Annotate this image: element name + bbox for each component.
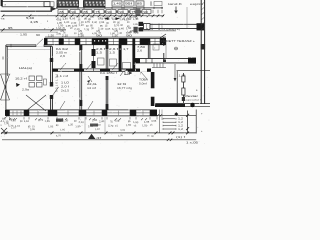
- NE corner diagonal tick: [160, 34, 166, 38]
- window mullion ticks: [52, 39, 54, 45]
- hall furniture table group: [29, 76, 35, 81]
- svg-text:4,05: 4,05: [114, 119, 120, 123]
- bottom line2 smudges: [88, 134, 96, 139]
- main top wall upper edge line: [45, 36, 166, 38]
- top-left dark corner bar: [1, 0, 3, 6]
- svg-text:tand.K: tand.K: [168, 2, 182, 6]
- svg-text:5,70: 5,70: [108, 124, 114, 128]
- door swing near bottom wall: [60, 101, 65, 109]
- bottom window mid lines: [10, 112, 25, 114]
- door gap mid-right: [146, 59, 152, 62]
- svg-text:5,0mf: 5,0mf: [139, 83, 147, 86]
- svg-text:1,95: 1,95: [20, 34, 28, 37]
- window mid lines: [47, 41, 59, 43]
- svg-text:2,40: 2,40: [56, 120, 62, 123]
- terrace small blob: [163, 60, 166, 63]
- terrace inner edge line: [143, 30, 176, 32]
- porch leader arrow: [174, 64, 176, 78]
- NE corner vertical wall: [163, 37, 165, 46]
- window row B boxes: [58, 10, 68, 14]
- terrace wall left column box: [144, 24, 151, 30]
- svg-text:3,05: 3,05: [30, 128, 36, 131]
- svg-text:1,95: 1,95: [48, 125, 54, 128]
- right outer wall double: [200, 0, 202, 104]
- hall door X mark: [26, 95, 46, 111]
- door swing marks upper rooms: [60, 63, 66, 70]
- fixture rect room4: [110, 59, 117, 66]
- svg-text:1,35: 1,35: [44, 120, 50, 123]
- svg-text:16,77 mfg: 16,77 mfg: [117, 86, 133, 90]
- SE bottom wall thick: [155, 103, 185, 107]
- svg-text:2,10: 2,10: [98, 27, 104, 30]
- terrace top wall double line: [143, 23, 200, 25]
- mid-right wall y60: [134, 58, 196, 60]
- dimension line row 1: [3, 15, 164, 17]
- svg-text:10,2 +f: 10,2 +f: [15, 77, 27, 81]
- bottom dark blob 2: [90, 124, 98, 127]
- bottom window mullions: [12, 111, 14, 116]
- svg-text:1 LO: 1 LO: [61, 81, 69, 85]
- main wall piers: [44, 38, 48, 44]
- ticks row y18: [57, 17, 59, 19]
- small fixture right of x150: [153, 44, 159, 50]
- right edge vertical line: [195, 110, 197, 134]
- svg-text:FEDETT TERASZ +: FEDETT TERASZ +: [161, 39, 196, 43]
- door knob blob: [190, 103, 194, 107]
- svg-text:TETOTER: TETOTER: [55, 74, 58, 92]
- duct blocks x93: [92, 45, 94, 71]
- svg-text:1,10: 1,10: [11, 126, 17, 129]
- svg-text:12 f4: 12 f4: [117, 82, 127, 86]
- stacked short dim lines: [163, 118, 176, 120]
- long bottom dim line 1: [1, 132, 196, 134]
- eaves arrowhead: [51, 6, 57, 11]
- svg-text:2,10: 2,10: [62, 35, 69, 38]
- svg-text:KA 185x f: KA 185x f: [100, 71, 117, 75]
- dim line left y32 faint: [0, 31, 58, 33]
- toba door swing: [141, 72, 147, 79]
- window row A dense strip 2: [84, 1, 106, 7]
- svg-text:1,10: 1,10: [63, 119, 69, 122]
- svg-text:14 mf: 14 mf: [87, 86, 96, 90]
- bottom wall band: [6, 109, 157, 111]
- svg-text:3,75: 3,75: [146, 28, 154, 31]
- bottom wall piers: [5, 110, 10, 116]
- right dim line y115: [156, 114, 196, 116]
- right wall hatch: [201, 2, 204, 5]
- terrace wall ticks: [158, 23, 160, 29]
- svg-text:95f: 95f: [125, 3, 133, 6]
- hall top wall door gap: [36, 44, 44, 46]
- hall right wall jambs: [50, 58, 53, 62]
- row A small box far right: [154, 1, 162, 5]
- hall top door swing: [37, 39, 43, 45]
- hall top wall tick: [2, 57, 4, 60]
- svg-text:2,40: 2,40: [119, 27, 125, 30]
- hall right wall door gap: [50, 87, 53, 96]
- svg-text:KA 3x2: KA 3x2: [56, 47, 69, 51]
- row B baseline: [57, 13, 151, 15]
- svg-text:4,35: 4,35: [30, 20, 39, 24]
- svg-text:4,75 (despre): 4,75 (despre): [158, 28, 180, 31]
- scan noise speckle: [1, 2, 210, 144]
- svg-text:1,95: 1,95: [70, 18, 76, 21]
- svg-text:HAL(a): HAL(a): [19, 66, 32, 70]
- svg-text:3,05: 3,05: [120, 129, 126, 132]
- svg-text:5,70: 5,70: [38, 119, 44, 122]
- thick wall x152 lower: [151, 72, 155, 106]
- svg-text:1,20: 1,20: [64, 21, 70, 24]
- svg-text:. .: . .: [16, 33, 18, 36]
- svg-text:1,10: 1,10: [24, 120, 30, 123]
- interior wall y70: [52, 68, 151, 70]
- dim line left y30: [0, 29, 66, 31]
- SE column wall: [182, 73, 184, 103]
- svg-text:1,7: 1,7: [123, 48, 129, 51]
- down arrow: [175, 7, 177, 11]
- terrace wall right end block: [197, 23, 205, 30]
- svg-text:1,50: 1,50: [48, 35, 55, 38]
- left bay X mark: [1, 74, 10, 100]
- svg-text:2,65: 2,65: [85, 20, 91, 24]
- right wall dark chunk: [201, 44, 205, 50]
- svg-text:2,0 f: 2,0 f: [61, 85, 69, 89]
- interior wall jambs: [52, 69, 58, 72]
- main top wall band lines: [44, 37, 166, 39]
- row A mid boxes: [112, 1, 122, 6]
- wall x152 door gap: [150, 88, 155, 97]
- svg-text:eujcm: eujcm: [190, 2, 204, 6]
- porch rail lines: [177, 70, 211, 72]
- eaves lower thick line: [1, 10, 53, 12]
- svg-text:4,05: 4,05: [151, 120, 157, 123]
- thin leader line right: [186, 7, 188, 28]
- svg-text:2,6 f: 2,6 f: [109, 47, 118, 51]
- svg-text:2,40: 2,40: [88, 125, 94, 129]
- terrace small symbol: [175, 47, 178, 50]
- hall door swing diagonal: [53, 87, 59, 96]
- bottom ticks row: [4, 117, 6, 119]
- dense junction blob: [136, 9, 141, 16]
- right vertical dim line: [187, 111, 189, 133]
- svg-text:(1) f: (1) f: [176, 136, 186, 139]
- svg-text:1,95: 1,95: [75, 125, 81, 128]
- bottom dark blob 1: [56, 119, 63, 122]
- svg-text:2,40: 2,40: [95, 124, 101, 128]
- svg-text:A: A: [1, 119, 3, 123]
- svg-text:7,80: 7,80: [137, 45, 146, 49]
- long bottom dim line 2: [2, 139, 196, 141]
- thick wall x120: [119, 45, 122, 71]
- hall right wall: [50, 46, 52, 110]
- mid dim arrows: [104, 17, 109, 20]
- partition wall x80: [79, 45, 81, 110]
- interior wall door gap right: [140, 68, 147, 71]
- thick wall x133: [132, 38, 135, 71]
- svg-text:1,20: 1,20: [68, 123, 74, 127]
- svg-text:1,50: 1,50: [4, 122, 10, 125]
- svg-text:2x1,5: 2x1,5: [61, 90, 70, 93]
- right short verticals: [159, 110, 161, 133]
- partition wall x149: [147, 42, 149, 58]
- svg-text:2,9a: 2,9a: [22, 88, 30, 92]
- svg-text:2,65: 2,65: [92, 119, 98, 123]
- lintel line under row A: [56, 7, 163, 9]
- duct wall speckles: [94, 40, 95, 42]
- diamond marker: [174, 112, 178, 116]
- svg-text:1,95: 1,95: [60, 129, 66, 132]
- svg-text:1,40: 1,40: [113, 3, 122, 6]
- svg-text:kapcsolat f: kapcsolat f: [184, 99, 202, 102]
- dim leader mid: [84, 117, 86, 132]
- top-left eaves band outline: [2, 2, 50, 7]
- row B gap marks: [68, 11, 69, 13]
- fixture rect room3b: [98, 58, 105, 65]
- fixture rect room5: [123, 63, 131, 70]
- svg-text:1,50: 1,50: [142, 124, 148, 127]
- svg-text:1,50: 1,50: [78, 35, 85, 38]
- svg-text:1 x,05: 1 x,05: [186, 141, 199, 145]
- svg-text:2,6 f: 2,6 f: [96, 47, 105, 51]
- row B right ticks: [152, 10, 154, 14]
- svg-text:4f: 4f: [96, 137, 102, 140]
- hall left wall: [5, 45, 7, 110]
- svg-text:1,50: 1,50: [126, 124, 132, 127]
- hall inner ceiling line: [8, 48, 51, 50]
- eaves band divider cell: [43, 2, 45, 7]
- hall top wall: [6, 44, 52, 46]
- kitchen door rects: [125, 71, 128, 75]
- svg-text:5,40: 5,40: [26, 16, 35, 20]
- partition wall x107: [105, 45, 107, 71]
- entry steps: [153, 64, 155, 68]
- svg-text:2,10: 2,10: [78, 121, 84, 125]
- svg-text:Mextar: Mextar: [184, 94, 198, 98]
- window row A dense strip 1: [57, 1, 79, 7]
